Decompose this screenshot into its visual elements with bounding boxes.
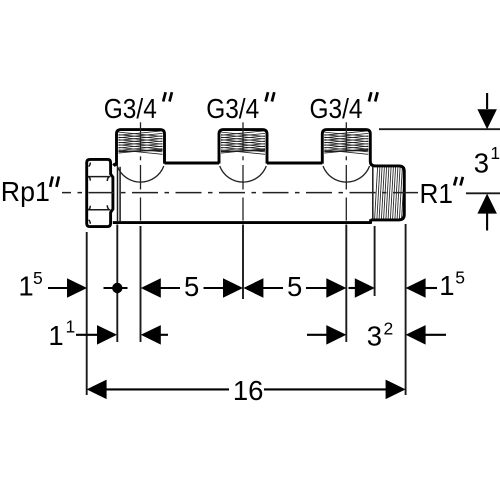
svg-text:G3/4: G3/4 [206,93,259,124]
svg-text:G3/4: G3/4 [104,93,157,124]
svg-text:1: 1 [18,271,33,302]
svg-text:1: 1 [439,270,454,301]
svg-text:5: 5 [455,267,465,287]
svg-text:5: 5 [184,271,199,302]
svg-text:2: 2 [384,318,394,338]
svg-text:5: 5 [33,268,43,288]
svg-text:1: 1 [490,143,500,163]
svg-text:R1: R1 [420,178,454,209]
svg-text:1: 1 [48,320,63,351]
svg-text:1: 1 [66,317,76,337]
svg-text:5: 5 [287,271,302,302]
svg-text:Rp1: Rp1 [1,176,50,207]
svg-text:3: 3 [474,148,489,179]
svg-text:3: 3 [367,320,382,351]
svg-text:16: 16 [233,375,264,406]
svg-text:G3/4: G3/4 [310,93,363,124]
